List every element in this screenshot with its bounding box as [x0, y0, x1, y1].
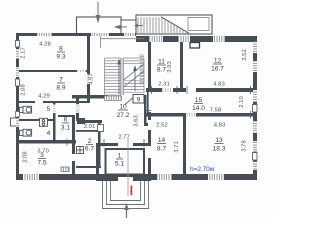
- svg-text:2.52: 2.52: [156, 123, 167, 129]
- svg-text:3.52: 3.52: [242, 49, 248, 60]
- svg-text:3.93: 3.93: [167, 61, 173, 73]
- svg-text:6.7: 6.7: [85, 146, 94, 153]
- svg-text:3.78: 3.78: [242, 140, 248, 152]
- svg-text:9: 9: [137, 97, 141, 104]
- svg-text:4.57: 4.57: [89, 73, 95, 84]
- svg-text:11: 11: [158, 59, 165, 66]
- svg-text:4.83: 4.83: [214, 123, 226, 129]
- svg-text:15: 15: [195, 97, 203, 104]
- svg-text:3.63: 3.63: [134, 115, 140, 127]
- svg-text:16.7: 16.7: [211, 66, 224, 73]
- svg-text:9.3: 9.3: [56, 54, 65, 61]
- svg-text:14.0: 14.0: [192, 105, 205, 112]
- svg-text:7.58: 7.58: [210, 108, 222, 114]
- svg-text:4: 4: [47, 130, 51, 137]
- svg-text:2.17: 2.17: [21, 47, 27, 58]
- svg-text:8: 8: [59, 46, 63, 53]
- svg-text:7.5: 7.5: [37, 160, 46, 167]
- svg-text:h=2.70м: h=2.70м: [190, 166, 215, 173]
- svg-text:13: 13: [215, 137, 223, 144]
- svg-text:8.9: 8.9: [56, 85, 65, 92]
- svg-text:18.3: 18.3: [213, 146, 226, 153]
- svg-text:4.28: 4.28: [39, 42, 51, 48]
- svg-text:2.01: 2.01: [84, 124, 95, 130]
- svg-text:14: 14: [158, 137, 166, 144]
- svg-text:8.7: 8.7: [157, 67, 166, 74]
- svg-text:2.08: 2.08: [21, 84, 27, 96]
- svg-text:7: 7: [59, 77, 63, 84]
- svg-text:10: 10: [119, 104, 127, 111]
- svg-text:3.71: 3.71: [174, 141, 180, 152]
- svg-text:2.08: 2.08: [23, 151, 29, 162]
- svg-text:4.83: 4.83: [213, 82, 225, 88]
- svg-text:12: 12: [214, 58, 222, 65]
- svg-text:1: 1: [118, 153, 122, 160]
- svg-text:4.29: 4.29: [38, 94, 49, 100]
- svg-text:2.10: 2.10: [239, 96, 245, 108]
- svg-text:3.1: 3.1: [61, 125, 70, 132]
- svg-text:2.77: 2.77: [118, 135, 129, 141]
- svg-text:5: 5: [47, 106, 51, 113]
- svg-text:27.2: 27.2: [117, 112, 130, 119]
- svg-text:6: 6: [64, 117, 68, 124]
- svg-text:2.31: 2.31: [158, 82, 169, 88]
- svg-text:3.70: 3.70: [37, 149, 49, 155]
- svg-text:8.7: 8.7: [157, 146, 166, 153]
- svg-text:5.1: 5.1: [115, 161, 124, 168]
